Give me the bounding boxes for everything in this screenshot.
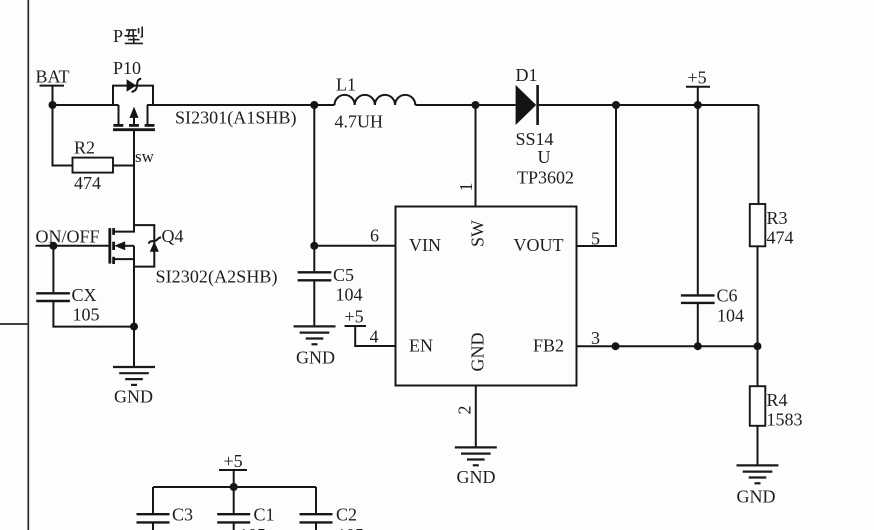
svg-text:474: 474 [74, 173, 101, 193]
node SW junction [472, 101, 480, 109]
wire CX to source node [53, 302, 134, 327]
label P型 [113, 26, 143, 46]
inductor L1 [335, 95, 416, 105]
svg-text:D1: D1 [516, 65, 538, 85]
wire Q4 source down [133, 267, 135, 367]
CX plate top [36, 292, 70, 294]
P10 contact bar 3 [145, 124, 155, 127]
svg-text:2: 2 [455, 406, 475, 415]
svg-text:C6: C6 [717, 286, 738, 306]
Q4 body diode cathode (curved) [149, 237, 161, 243]
svg-text:+5: +5 [224, 451, 243, 471]
P10 gate wire down to sw node [133, 130, 135, 232]
wire cap bank rail [153, 486, 316, 488]
op IC U TP3602 [396, 207, 577, 386]
svg-text:SS14: SS14 [516, 129, 554, 149]
C5 plate top [298, 271, 332, 273]
svg-text:GND: GND [737, 487, 776, 507]
svg-text:105: 105 [239, 525, 266, 530]
P10 contact bar 2 [129, 124, 139, 127]
sheet border left line [27, 0, 29, 530]
wire rail L1 to D1 to output [415, 104, 515, 106]
ground GND (C5) [294, 326, 336, 344]
C5 plate bottom [298, 279, 332, 281]
wire down to C1 [233, 487, 235, 513]
P10 body diode cathode (curved) [132, 79, 142, 92]
node VIN junction [310, 242, 318, 250]
svg-text:C1: C1 [254, 505, 275, 525]
wire BAT junction down to R2 [53, 105, 73, 166]
wire R3 to FB2 node [757, 246, 759, 346]
svg-text:L1: L1 [336, 75, 356, 95]
svg-text:4: 4 [370, 327, 379, 347]
svg-text:1583: 1583 [767, 410, 803, 430]
P10 bulk arrow [133, 112, 135, 124]
wire C6 to FB2 net [697, 304, 699, 346]
capacitor CX [36, 246, 134, 327]
wire GND pin 2 down [475, 386, 477, 448]
svg-text:CX: CX [72, 285, 97, 305]
Q4 body diode triangle [150, 242, 159, 252]
wire down to C2 [315, 487, 317, 513]
svg-text:R4: R4 [767, 390, 788, 410]
capacitor C3 [137, 514, 170, 530]
capacitor C6 [681, 295, 715, 346]
diode D1 SS14 [516, 85, 538, 125]
node FB2 C6 junction [694, 342, 702, 350]
C6 plate bottom [681, 302, 715, 304]
svg-text:R3: R3 [767, 208, 788, 228]
svg-text:1: 1 [456, 183, 476, 192]
ground GND (Q4 source) [113, 367, 155, 385]
node L1 input junction [310, 101, 318, 109]
P10 gate plate [113, 128, 155, 131]
svg-text:GND: GND [296, 348, 335, 368]
Q4 body-diode loop wire [134, 225, 154, 267]
svg-text:C2: C2 [336, 505, 357, 525]
svg-text:GND: GND [468, 333, 488, 372]
node source-CX junction [130, 323, 138, 331]
P10 source stub [118, 105, 120, 124]
node cap bank junction [230, 483, 238, 491]
svg-text:GND: GND [114, 387, 153, 407]
Q4 channel contact 1 [112, 228, 115, 235]
svg-text:U: U [538, 147, 551, 167]
P10 contact bar 1 [113, 124, 123, 127]
svg-text:5: 5 [591, 229, 600, 249]
svg-text:P10: P10 [113, 58, 141, 78]
capacitor C2 [300, 514, 333, 530]
node FB2 dot A [612, 342, 620, 350]
wire ON/OFF junction down to CX [52, 246, 54, 292]
power +5 (output rail) [686, 68, 710, 106]
node +5 junction [694, 101, 702, 109]
svg-text:104: 104 [336, 285, 363, 305]
resistor R2 [73, 158, 114, 173]
wire FB2 pin 3 net [577, 345, 758, 347]
svg-text:R2: R2 [74, 138, 95, 158]
svg-text:105: 105 [337, 525, 364, 530]
Q4 gate bar [108, 228, 111, 264]
node BAT junction [49, 101, 57, 109]
Q4 bulk arrow [114, 241, 125, 250]
svg-text:+5: +5 [688, 68, 707, 88]
wire SW pin up to rail [475, 105, 477, 207]
svg-text:FB2: FB2 [533, 336, 564, 356]
Q4 channel contact 2 [112, 242, 115, 250]
svg-text:SI2301(A1SHB): SI2301(A1SHB) [175, 108, 297, 129]
svg-text:TP3602: TP3602 [517, 168, 574, 188]
wire BAT down to main rail [52, 86, 54, 105]
transistor Q1 P10 (P-MOSFET) [113, 79, 155, 232]
wire FB2 node to R4 [757, 346, 759, 386]
ground GND (R4) [737, 465, 779, 483]
svg-text:C3: C3 [172, 505, 193, 525]
svg-text:sw: sw [135, 147, 155, 166]
svg-text:4.7UH: 4.7UH [335, 112, 384, 132]
power +5 (cap bank) [219, 451, 247, 487]
P10 body diode triangle [127, 79, 137, 91]
capacitor C5 [298, 272, 332, 326]
wire VIN pin [314, 245, 395, 247]
Q4 bulk-source tie [133, 246, 135, 259]
svg-text:VOUT: VOUT [514, 235, 564, 255]
svg-text:GND: GND [457, 467, 496, 487]
svg-text:SI2302(A2SHB): SI2302(A2SHB) [156, 267, 278, 288]
node FB2 R3-R4 junction [754, 342, 762, 350]
P10 drain stub [147, 105, 149, 124]
svg-text:+5: +5 [345, 307, 364, 327]
svg-text:VIN: VIN [409, 235, 441, 255]
svg-text:ON/OFF: ON/OFF [36, 227, 100, 247]
Q4 drain wire [114, 225, 134, 232]
wire R4 to ground [757, 426, 759, 466]
wire main rail BAT to P10 source [53, 104, 119, 106]
wire C5 to ground [313, 281, 315, 326]
wire rail corner down to R3 [758, 105, 760, 204]
resistor R4 [750, 386, 766, 426]
svg-text:105: 105 [73, 305, 100, 325]
wire output down to VOUT pin [577, 105, 617, 246]
svg-text:P: P [113, 26, 123, 46]
ground GND (IC pin 2) [455, 447, 497, 465]
svg-text:6: 6 [370, 226, 379, 246]
Q4 channel contact 3 [112, 257, 115, 264]
svg-text:BAT: BAT [36, 67, 70, 87]
BAT port bar [40, 85, 65, 87]
svg-text:C5: C5 [333, 265, 354, 285]
wire ON/OFF to Q4 gate [36, 245, 110, 247]
svg-text:SW: SW [468, 220, 488, 247]
svg-text:Q4: Q4 [162, 226, 184, 246]
power +5 (EN) [345, 307, 396, 347]
sheet border tick [0, 323, 28, 325]
Q4 source wire [114, 259, 134, 267]
svg-text:104: 104 [717, 306, 744, 326]
C6 plate top [681, 294, 715, 296]
capacitor C1 [217, 514, 250, 530]
D1 anode triangle [516, 85, 537, 125]
transistor Q4 (N-MOSFET SI2302) [110, 225, 161, 267]
wire L1 input down to VIN and C5 [313, 105, 315, 271]
wire main rail P10 drain to L1 [147, 104, 335, 106]
P10 body-diode loop wire [113, 86, 153, 105]
svg-text:474: 474 [767, 228, 794, 248]
node D1 output junction [612, 101, 620, 109]
wire down to C3 [152, 487, 154, 513]
wire +5 to EN pin [355, 326, 395, 346]
D1 cathode bar [536, 85, 539, 125]
svg-text:EN: EN [409, 336, 433, 356]
node ON/OFF junction [49, 242, 57, 250]
wire R2 to sw node [113, 165, 134, 167]
CX plate bottom [36, 300, 70, 302]
svg-text:3: 3 [591, 328, 600, 348]
resistor R3 [750, 204, 766, 246]
wire +5 junction down to C6 [697, 105, 699, 294]
